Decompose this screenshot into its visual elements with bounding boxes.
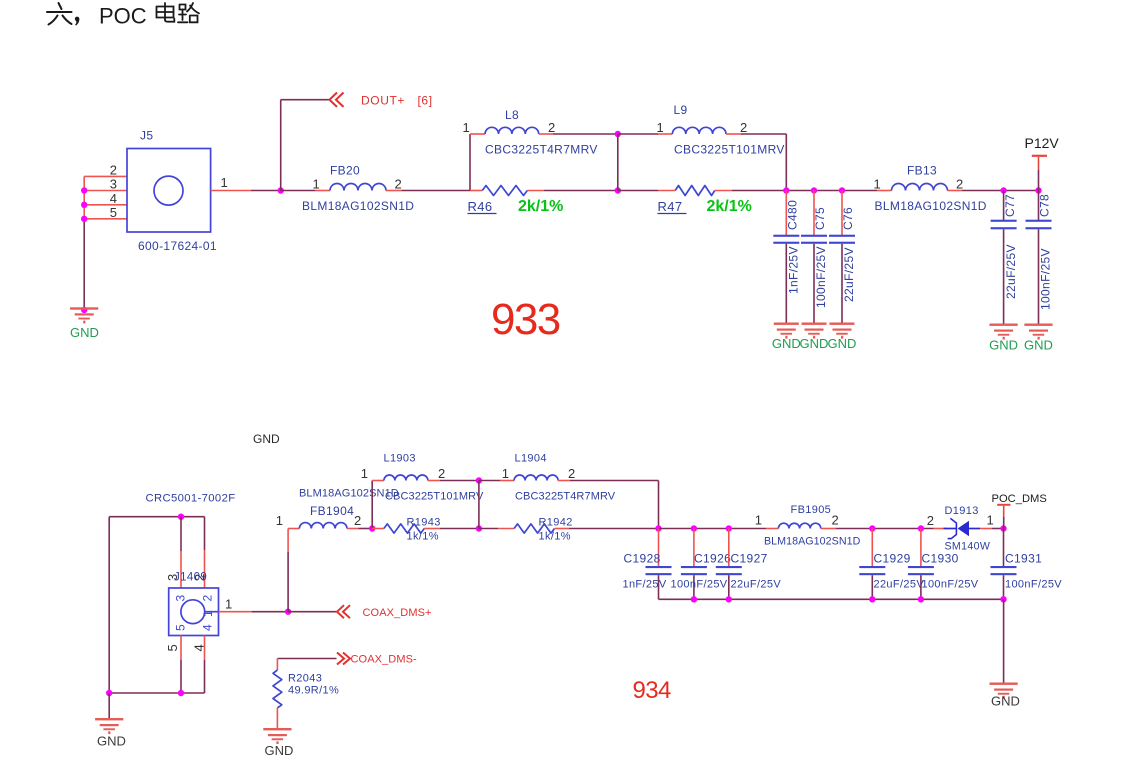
node loop bottom left [106,690,112,696]
svg-text:R46: R46 [468,199,493,214]
svg-text:CRC5001-7002F: CRC5001-7002F [146,493,236,505]
wire FB1904 pin1 stub [288,528,299,530]
wire L8 left vertical [469,134,471,191]
wire pin2 vertical [204,517,206,588]
svg-text:CBC3225T101MRV: CBC3225T101MRV [385,491,484,503]
wire DOUT+ vertical [280,100,282,191]
svg-text:GND: GND [70,325,99,340]
svg-text:4: 4 [110,191,117,206]
svg-text:5: 5 [174,624,188,631]
svg-text:1: 1 [463,120,470,135]
node bus C1930 [918,596,924,602]
svg-text:22uF/25V: 22uF/25V [874,579,925,591]
svg-text:1k/1%: 1k/1% [539,531,571,543]
svg-text:2: 2 [568,466,575,481]
wire main to FB20 [281,190,315,192]
svg-text:1: 1 [313,177,320,192]
wire D1913 to POC node [992,528,1004,530]
svg-text:POC_DMS: POC_DMS [992,493,1047,505]
wire R47 pin1 stub [658,190,675,192]
wire R1942 to node [569,528,659,530]
node branch mid [476,477,482,483]
svg-text:C1928: C1928 [624,552,661,566]
svg-text:GND: GND [97,734,126,749]
wire J5 left vertical (red segment) [83,176,85,219]
svg-text:L8: L8 [505,108,519,122]
wire FB20 pin2 stub [386,190,402,192]
svg-text:2: 2 [395,177,402,192]
wire pin1 to junction [252,611,289,613]
svg-text:1nF/25V: 1nF/25V [623,579,667,591]
svg-text:R47: R47 [658,199,683,214]
svg-text:L9: L9 [674,103,688,117]
svg-text:934: 934 [633,677,671,704]
node C1926 top [691,525,697,531]
wire FB13 to P12V node [962,190,1039,192]
svg-text:1: 1 [221,175,228,190]
svg-text:FB20: FB20 [330,164,360,178]
capacitor C78 [1026,191,1052,324]
resistor R1943 [384,524,424,533]
svg-text:DOUT+: DOUT+ [361,93,405,107]
wire L8 pin1 stub [470,133,485,135]
ground symbol under C75 [802,323,827,339]
node bus C1926 [691,596,697,602]
svg-text:[6]: [6] [418,93,433,107]
svg-text:1: 1 [755,513,762,528]
svg-text:22uF/25V: 22uF/25V [842,247,856,302]
wire L8 to mid node [553,133,618,135]
svg-text:C75: C75 [813,207,827,230]
wire L1903 vertical [371,481,373,529]
connector J1409 body [169,588,219,636]
wire loop top [109,516,204,518]
svg-text:1: 1 [361,466,368,481]
wire L1904 pin1 stub [500,480,514,482]
svg-text:POC: POC [99,4,147,29]
resistor R1942 [514,524,554,533]
svg-text:5: 5 [110,205,117,220]
wire pin1 to junction [251,190,281,192]
svg-text:COAX_DMS+: COAX_DMS+ [363,607,432,619]
wire pin4 vertical [204,636,206,694]
wire R1943 pin2 stub [424,528,440,530]
svg-text:22uF/25V: 22uF/25V [731,579,782,591]
wire FB20 to L8/R46 node [402,190,471,192]
inductor L8 [485,127,539,134]
svg-text:C1926: C1926 [694,552,731,566]
capacitor C1928 [646,529,672,600]
svg-text:1: 1 [201,610,215,617]
svg-text:GND: GND [265,743,294,758]
resistor R46 [482,186,527,196]
capacitor C1929 [859,529,885,600]
wire FB1904 vertical [287,529,289,612]
wire L1903 to node [440,480,479,482]
svg-text:1: 1 [987,513,994,528]
junction dots on J5 left rail [81,187,87,313]
wire pin 2 stub [84,175,127,177]
inductor L1904 [514,475,558,480]
svg-text:BLM18AG102SN1D: BLM18AG102SN1D [299,488,399,500]
node bus C1929 [869,596,875,602]
svg-text:L1904: L1904 [515,453,547,465]
wire mid to L1904 [479,480,500,482]
inductor L9 [672,127,726,134]
svg-text:L1903: L1903 [384,453,416,465]
svg-text:CBC3225T4R7MRV: CBC3225T4R7MRV [515,491,616,503]
svg-text:3: 3 [110,177,117,192]
title POC circuit heading [47,3,72,25]
svg-text:GND: GND [989,338,1018,353]
svg-text:C480: C480 [786,200,800,230]
node mid main [615,187,621,193]
wire R1942 pin2 stub [555,528,569,530]
svg-text:J5: J5 [140,129,153,143]
svg-text:GND: GND [253,432,280,446]
svg-text:3: 3 [174,595,188,602]
ground symbol bottom-right [990,683,1018,699]
wire R46 pin2 stub [527,190,544,192]
wire R2043 bottom stub [276,708,278,728]
svg-text:2: 2 [438,466,445,481]
node C78 / P12V [1035,187,1041,193]
svg-text:D1913: D1913 [945,505,979,517]
ground symbol under C77 [990,324,1018,340]
wire FB1904 to node [359,528,373,530]
wire right branch vertical [658,481,660,529]
svg-text:2k/1%: 2k/1% [518,198,563,215]
ferrite bead FB1904 [299,523,347,529]
ground symbol bottom-left [95,718,123,734]
svg-text:GND: GND [772,336,801,351]
diode D1913 [944,518,981,538]
wire L1904 pin2 stub [558,480,570,482]
wire main rail to FB1905 [659,528,767,530]
svg-text:BLM18AG102SN1D: BLM18AG102SN1D [764,536,861,548]
connector J5 body [127,149,211,233]
svg-text:R2043: R2043 [288,673,322,685]
svg-text:2: 2 [927,513,934,528]
node loop bottom pin5 [178,690,184,696]
wire mid to L9 [618,133,658,135]
wire pin1 stub [219,611,252,613]
svg-text:2: 2 [740,120,747,135]
wire R2043 top horizontal [277,658,336,660]
wire FB1904 pin2 stub [347,528,359,530]
svg-text:1k/1%: 1k/1% [407,531,439,543]
wire FB20 pin1 stub [315,190,330,192]
wire R1942 pin1 stub [498,528,514,530]
wire mid to R47 [618,190,658,192]
svg-text:C1929: C1929 [874,552,911,566]
wire FB13 pin2 stub [948,190,963,192]
wire bus to ground [1003,599,1005,682]
power flag POC_DMS [997,504,1010,529]
node FB1904 out [369,525,375,531]
svg-text:100nF/25V: 100nF/25V [922,579,979,591]
wire FB1905 pin1 stub [766,528,778,530]
capacitor C76 [829,191,855,323]
wire pin 5 stub [84,218,127,220]
ground symbol below J5 [70,307,98,323]
ground symbol under R2043 [263,728,291,744]
wire L9 pin1 stub [658,133,672,135]
svg-text:GND: GND [1024,338,1053,353]
wire FB13 pin1 stub [877,190,892,192]
svg-text:C1927: C1927 [731,552,768,566]
svg-text:600-17624-01: 600-17624-01 [138,239,217,253]
svg-text:BLM18AG102SN1D: BLM18AG102SN1D [302,199,414,213]
wire pin 4 stub [84,204,127,206]
wire pin3 vertical [180,517,182,588]
capacitor C480 [773,191,799,323]
svg-text:C76: C76 [841,207,855,230]
wire D1913 pin1 stub [980,528,992,530]
svg-text:2: 2 [956,177,963,192]
svg-text:C1931: C1931 [1005,552,1042,566]
wire R2043 top stub [276,659,278,671]
svg-text:P12V: P12V [1025,135,1060,151]
wire pin 1 stub [211,190,251,192]
power flag P12V [1032,155,1047,191]
wire R1943 pin1 stub [372,528,384,530]
svg-text:C1930: C1930 [922,552,959,566]
node mid branch top [615,131,621,137]
resistor R2043 vertical [273,670,282,708]
wire pin 3 stub [84,190,127,192]
svg-text:J1409: J1409 [174,572,207,584]
net flag COAX_DMS- chevron [337,653,350,665]
node C75 [811,187,817,193]
svg-text:FB13: FB13 [907,164,937,178]
svg-text:GND: GND [800,336,829,351]
wire R46 pin1 stub [470,190,482,192]
ferrite bead FB13 [892,184,948,191]
capacitor C1931 [991,529,1017,600]
svg-text:4: 4 [192,644,207,651]
wire L1904 to right corner [570,480,659,482]
wire pin5 vertical [180,636,182,694]
svg-text:GND: GND [828,336,857,351]
svg-text:FB1904: FB1904 [310,504,354,518]
node junction DOUT branch [278,187,284,193]
node C77 [1000,187,1006,193]
capacitor C1926 [681,529,707,600]
capacitor C77 [991,191,1017,324]
wire D1913 pin2 stub [934,528,947,530]
svg-text:2: 2 [354,513,361,528]
node loop top pin3 [178,514,184,520]
svg-text:1: 1 [225,597,232,612]
node coax junction [285,609,291,615]
svg-text:C77: C77 [1003,194,1017,217]
svg-text:4: 4 [201,624,215,631]
wire L9 pin2 stub [726,133,741,135]
wire FB1905 to node [836,528,934,530]
node C1928 top [655,525,661,531]
svg-text:22uF/25V: 22uF/25V [1004,244,1018,299]
wire DOUT+ horizontal [281,99,330,101]
svg-text:1: 1 [657,120,664,135]
wire mid vertical [617,134,619,191]
svg-text:BLM18AG102SN1D: BLM18AG102SN1D [875,199,987,213]
net flag DOUT+ chevron [330,93,344,107]
svg-text:C78: C78 [1038,194,1052,217]
svg-text:100nF/25V: 100nF/25V [671,579,728,591]
ferrite bead FB1905 [778,523,820,528]
node POC_DMS [1000,525,1006,531]
wire junction to chevron [288,611,336,613]
ground symbol under C76 [830,323,855,339]
wire FB1905 pin2 stub [821,528,836,530]
wire R1943 to node [440,528,479,530]
node C480 [783,187,789,193]
wire R46 to mid node [544,190,618,192]
svg-text:1: 1 [874,177,881,192]
svg-text:GND: GND [991,694,1020,709]
svg-text:100nF/25V: 100nF/25V [814,246,828,308]
svg-text:933: 933 [491,295,560,344]
svg-text:R1942: R1942 [539,517,573,529]
wire L9 to right corner [741,133,786,135]
svg-text:2: 2 [548,120,555,135]
svg-text:2k/1%: 2k/1% [707,198,752,215]
node bus C1931 [1000,596,1006,602]
wire loop left vertical [108,517,110,693]
svg-text:2: 2 [110,163,117,178]
ground symbol under C480 [774,323,799,339]
svg-text:2: 2 [201,595,215,602]
svg-text:1: 1 [502,466,509,481]
capacitor C1930 [908,529,934,600]
capacitor C75 [801,191,827,323]
capacitor C1927 [716,529,742,600]
node C76 [839,187,845,193]
ground symbol under C78 [1024,324,1052,340]
svg-text:1: 1 [276,513,283,528]
wire bottom bus [659,598,1004,600]
net flag COAX_DMS+ chevron [337,605,350,618]
wire R47 pin2 stub [715,190,732,192]
node bus C1927 [726,596,732,602]
wire J5 left vertical to ground [83,219,85,309]
svg-text:CBC3225T101MRV: CBC3225T101MRV [674,143,785,157]
wire R47 to cap rail [732,190,877,192]
svg-text:COAX_DMS-: COAX_DMS- [351,654,418,666]
ferrite bead FB20 [330,184,386,191]
svg-text:R1943: R1943 [407,517,441,529]
wire mid to R1942 [479,528,498,530]
node main mid [476,525,482,531]
svg-text:1nF/25V: 1nF/25V [787,246,801,294]
inductor L1903 [384,475,428,480]
node C1927 top [726,525,732,531]
svg-text:2: 2 [832,513,839,528]
wire loop bottom [109,692,204,694]
svg-text:100nF/25V: 100nF/25V [1039,248,1053,310]
node C1929 top [869,525,875,531]
wire L8 pin2 stub [539,133,553,135]
wire right branch vertical [785,134,787,191]
resistor R47 [675,186,715,196]
wire L1903 pin1 stub [372,480,384,482]
svg-text:49.9R/1%: 49.9R/1% [288,685,339,697]
svg-text:CBC3225T4R7MRV: CBC3225T4R7MRV [485,143,598,157]
node C1930 top [918,525,924,531]
wire mid vertical [478,481,480,529]
svg-text:FB1905: FB1905 [791,504,832,516]
wire L1903 pin2 stub [428,480,440,482]
svg-text:5: 5 [165,644,180,651]
svg-text:100nF/25V: 100nF/25V [1005,579,1062,591]
wire to bottom-left ground [108,693,110,718]
